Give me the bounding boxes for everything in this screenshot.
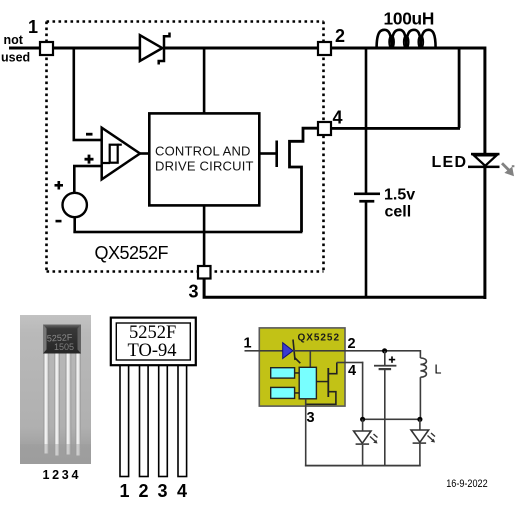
svg-text:100uH: 100uH xyxy=(384,8,435,28)
wire: LED to bottom rail xyxy=(483,168,486,299)
svg-text:1.5v: 1.5v xyxy=(384,187,415,204)
control block: CONTROL AND DRIVE CIRCUIT xyxy=(149,113,259,205)
LED2 light arrows xyxy=(428,433,436,443)
plus sign (comparator + input) xyxy=(85,155,94,164)
wire: top rail diode cathode to pin2 xyxy=(164,47,318,50)
svg-text:QX5252F: QX5252F xyxy=(95,243,169,263)
wire: battery branch vertical (top) xyxy=(365,48,368,194)
LED1 light arrows xyxy=(370,434,378,444)
wire: pin4 net down to LED1 xyxy=(362,362,364,420)
pin 4 terminal square xyxy=(318,122,331,135)
wire: top rail down to control box xyxy=(203,48,206,114)
plus sign (cell +) xyxy=(55,181,64,190)
wire: control box gate wire to MOSFET xyxy=(259,152,277,155)
svg-text:1: 1 xyxy=(120,481,130,501)
svg-text:used: used xyxy=(1,51,30,65)
svg-text:cell: cell xyxy=(385,204,412,221)
node: vertical wire from top rail down-left branch xyxy=(73,48,76,140)
diode D1 (schottky) triangle xyxy=(140,35,162,61)
svg-text:4: 4 xyxy=(177,481,187,501)
svg-text:16-9-2022: 16-9-2022 xyxy=(446,478,488,490)
svg-text:1234: 1234 xyxy=(43,468,82,482)
wire: battery to bottom rail xyxy=(365,202,368,297)
dashed IC boundary box QX5252F xyxy=(47,22,324,272)
wire: pin3 to bottom rail xyxy=(305,399,307,467)
wire: pin2 net to inductor xyxy=(345,350,420,352)
pin 4 wire to inductor branch xyxy=(331,127,460,130)
internal mosfet drain step to pin 4 xyxy=(329,363,337,374)
LED2 xyxy=(419,419,421,430)
wire: comparator plus input xyxy=(73,165,102,168)
wire: diode to right edge (pin2 net inside) xyxy=(293,350,345,352)
svg-text:4: 4 xyxy=(348,363,356,379)
wire: top rail pin1 to diode xyxy=(53,47,140,50)
mini inductor L xyxy=(420,358,426,377)
wire: internal bottom rail xyxy=(73,231,302,234)
svg-text:CONTROL AND: CONTROL AND xyxy=(155,144,251,159)
diode D1 schottky cathode bar xyxy=(159,33,170,65)
junction dots xyxy=(360,417,365,422)
wire: plus input down to solar cell xyxy=(73,165,76,193)
pin 3 terminal square xyxy=(198,266,211,279)
LED light arrow xyxy=(502,163,514,176)
svg-text:QX5252: QX5252 xyxy=(298,333,340,344)
IC block QX5252 (yellow) xyxy=(259,328,345,406)
svg-text:L: L xyxy=(435,363,442,377)
svg-text:2: 2 xyxy=(139,481,149,501)
pin 1 terminal square xyxy=(40,42,53,55)
wire: comparator output to control box xyxy=(139,152,150,155)
wire: pin3 down and bottom rail xyxy=(204,278,484,297)
wire: control box down to pin 3 xyxy=(203,205,206,267)
svg-text:3: 3 xyxy=(189,282,199,302)
wire: corner down to inductor xyxy=(420,350,422,358)
leads xyxy=(44,354,82,456)
svg-text:4: 4 xyxy=(333,108,343,128)
solar cell circle xyxy=(62,193,86,217)
svg-text:not: not xyxy=(4,33,24,47)
wire: top rail pin2 to right corner xyxy=(331,47,484,50)
op-amp U1 comparator triangle xyxy=(102,128,140,180)
transistor M1 gate bar xyxy=(275,141,278,168)
internal mosfet channel bar xyxy=(327,368,329,397)
wire: drop to control rect xyxy=(310,350,312,368)
wire: comparator minus input xyxy=(73,139,102,142)
wire: not-used stub to pin 1 xyxy=(9,47,40,50)
LED1 xyxy=(362,419,364,431)
svg-text:5252F: 5252F xyxy=(129,323,176,343)
svg-text:LED: LED xyxy=(432,154,467,171)
mini battery xyxy=(384,351,386,366)
junction dot battery top xyxy=(382,348,387,353)
minus sign (comparator - input) xyxy=(86,133,93,136)
svg-text:1: 1 xyxy=(28,17,38,37)
svg-text:2: 2 xyxy=(348,336,356,352)
wire: vertical from top rail to pin4 line xyxy=(458,48,461,128)
svg-text:1: 1 xyxy=(244,336,252,352)
svg-text:TO-94: TO-94 xyxy=(128,341,177,361)
internal mosfet source step to pin 3 rail xyxy=(306,392,336,405)
photo background xyxy=(20,315,91,464)
internal blue diode xyxy=(283,343,293,359)
internal cyan blocks xyxy=(271,368,295,378)
wire: inductor to junction xyxy=(420,377,422,420)
package body outline xyxy=(111,318,196,366)
wire: cell bottom to internal ground rail xyxy=(73,217,76,233)
legs xyxy=(120,366,187,477)
svg-text:1505: 1505 xyxy=(54,342,74,352)
LED D2 symbol xyxy=(471,153,500,156)
wire: mini bottom rail xyxy=(305,465,421,467)
hysteresis symbol inside comparator xyxy=(110,145,118,163)
pin 2 terminal square xyxy=(318,42,331,55)
internal connector wires xyxy=(295,372,300,374)
wire: right rail top to LED xyxy=(483,47,486,155)
svg-text:DRIVE CIRCUIT: DRIVE CIRCUIT xyxy=(155,159,254,174)
battery B1 1.5v cell plates xyxy=(354,193,380,196)
wire: pin 1 lead xyxy=(245,350,284,352)
package body xyxy=(43,325,81,354)
transistor M1 channel and drain path to pin 4 xyxy=(290,128,319,232)
wire: junction rail xyxy=(362,419,421,421)
svg-text:3: 3 xyxy=(307,410,315,426)
minus sign (cell -) xyxy=(56,220,62,223)
svg-text:3: 3 xyxy=(158,481,168,501)
svg-text:2: 2 xyxy=(335,26,345,46)
wire: pin 4 lead xyxy=(337,362,364,364)
inductor L1 100uH xyxy=(377,30,436,48)
